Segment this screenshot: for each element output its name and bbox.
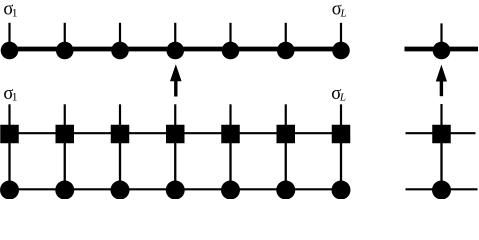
wire: connector MPO site 6 to MPS site 6: [285, 134, 287, 190]
wire: lower MPS bond line (thin): [10, 188, 342, 190]
wire: physical leg above MPO site 2: [64, 104, 66, 134]
wire: top MPS bond line (thick): [10, 47, 342, 52]
wire: connector MPO site 4 to MPS site 4: [174, 134, 176, 190]
wire: connector MPO site 1 to MPS site 1: [8, 134, 10, 190]
lower MPS tensor site 5 (circle): [221, 181, 240, 200]
MPO tensor site 1 (square): [0, 125, 19, 144]
MPS tensor site 5 (circle): [222, 42, 240, 60]
wire: physical leg above MPO site 4: [174, 104, 176, 134]
MPS tensor site 1 (circle): [1, 42, 19, 60]
MPS tensor site 2 (circle): [56, 42, 74, 60]
wire: physical leg above MPO site 1: [8, 104, 10, 134]
lower MPS tensor site 3 (circle): [111, 181, 130, 200]
MPS tensor site 7 (circle): [332, 42, 350, 60]
single lower MPS tensor (circle, right): [432, 181, 451, 200]
MPO tensor site 7 (square): [332, 125, 351, 144]
wire: physical leg above site 2: [64, 23, 66, 50]
wire: MPO bond line (thin): [10, 132, 342, 134]
wire: physical leg above site 1: [8, 23, 10, 50]
MPO tensor site 4 (square): [166, 125, 185, 144]
lower MPS tensor site 2 (circle): [55, 181, 74, 200]
MPO tensor site 5 (square): [221, 125, 240, 144]
wire: physical leg above MPO site 3: [119, 104, 121, 134]
arrow pointing to single MPS tensor: [436, 65, 447, 97]
arrow pointing to MPS site 4: [170, 64, 182, 96]
lower MPS tensor site 4 (circle): [166, 181, 185, 200]
wire: physical leg above MPO site 7: [340, 104, 342, 134]
wire: physical leg above single MPO tensor: [440, 104, 442, 134]
MPS tensor site 4 (circle): [166, 42, 184, 60]
single MPS tensor (circle, right): [433, 42, 451, 60]
wire: physical leg above site 3: [119, 23, 121, 50]
wire: physical leg above single site: [440, 23, 442, 50]
wire: connector MPO site 3 to MPS site 3: [119, 134, 121, 190]
wire: connector MPO site 2 to MPS site 2: [64, 134, 66, 190]
single MPO tensor (square, right): [432, 125, 451, 144]
wire: physical leg above site 5: [229, 23, 231, 50]
wire: physical leg above site 6: [285, 23, 287, 50]
MPS tensor site 3 (circle): [111, 42, 129, 60]
MPS tensor site 6 (circle): [277, 42, 295, 60]
lower MPS tensor site 7 (circle): [332, 181, 351, 200]
wire: physical leg above MPO site 6: [285, 104, 287, 134]
wire: physical leg above site 4: [174, 23, 176, 50]
wire: single-site MPO bond line (thin): [406, 132, 476, 134]
wire: physical leg above MPO site 5: [229, 104, 231, 134]
MPO tensor site 2 (square): [56, 125, 75, 144]
wire: single-site figure top bond line (thick): [405, 47, 479, 52]
MPO tensor site 6 (square): [277, 125, 296, 144]
lower MPS tensor site 1 (circle): [0, 181, 19, 200]
MPO tensor site 3 (square): [111, 125, 130, 144]
wire: connector MPO site 5 to MPS site 5: [229, 134, 231, 190]
wire: single-site lower bond line (thin): [406, 188, 478, 190]
wire: connector single MPO tensor to single MPS tensor: [440, 134, 442, 190]
lower MPS tensor site 6 (circle): [276, 181, 295, 200]
wire: physical leg above site 7: [340, 23, 342, 50]
wire: connector MPO site 7 to MPS site 7: [340, 134, 342, 190]
